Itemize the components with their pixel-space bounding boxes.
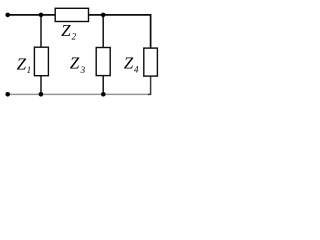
wire: Z1 top lead	[40, 15, 42, 47]
wire: Z1 bottom lead	[40, 76, 42, 95]
terminal dot bottom-left	[5, 92, 10, 97]
svg-text:Z: Z	[17, 54, 27, 73]
svg-text:Z: Z	[61, 21, 71, 40]
svg-text:Z: Z	[70, 54, 80, 73]
wire: Z3 top lead	[102, 15, 104, 48]
wire: bottom rail from left terminal to Z4 bottom	[8, 93, 150, 95]
wire: top rail from left terminal to Z4 drop	[8, 15, 151, 48]
svg-text:4: 4	[134, 65, 139, 75]
junction dot: bottom rail / Z3	[101, 92, 106, 97]
svg-text:2: 2	[72, 32, 77, 42]
junction dot: top rail / Z1	[39, 13, 44, 18]
svg-text:Z: Z	[124, 54, 134, 73]
svg-text:1: 1	[27, 65, 32, 75]
impedance Z4 (right shunt box)	[144, 48, 158, 76]
impedance Z3 (middle shunt box)	[96, 48, 110, 76]
impedance Z2 (series box on top rail)	[55, 8, 88, 21]
junction dot: bottom rail / Z1	[39, 92, 44, 97]
junction dot: top rail / Z3	[101, 13, 106, 18]
impedance Z1 (left shunt box)	[34, 47, 48, 75]
terminal dot top-left	[5, 13, 10, 18]
wire: Z3 bottom lead	[102, 76, 104, 95]
wire: Z4 bottom lead	[148, 76, 151, 94]
svg-text:3: 3	[80, 65, 86, 75]
